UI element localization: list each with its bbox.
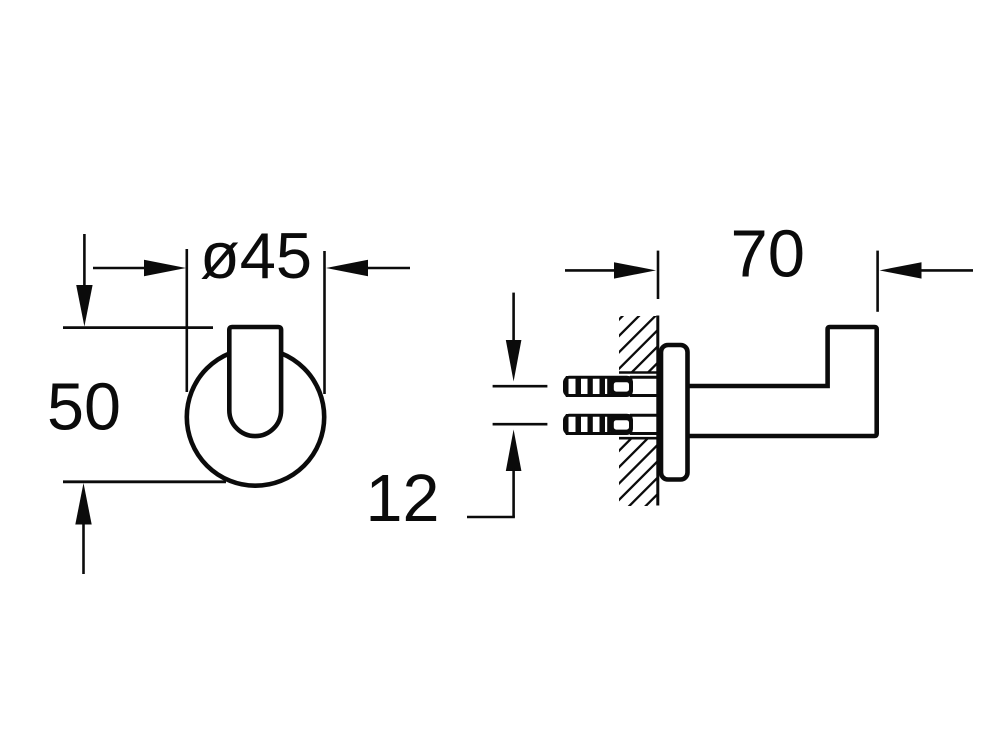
- svg-text:50: 50: [47, 371, 121, 445]
- svg-text:12: 12: [366, 462, 440, 536]
- svg-text:70: 70: [731, 217, 806, 292]
- svg-text:ø45: ø45: [200, 219, 312, 292]
